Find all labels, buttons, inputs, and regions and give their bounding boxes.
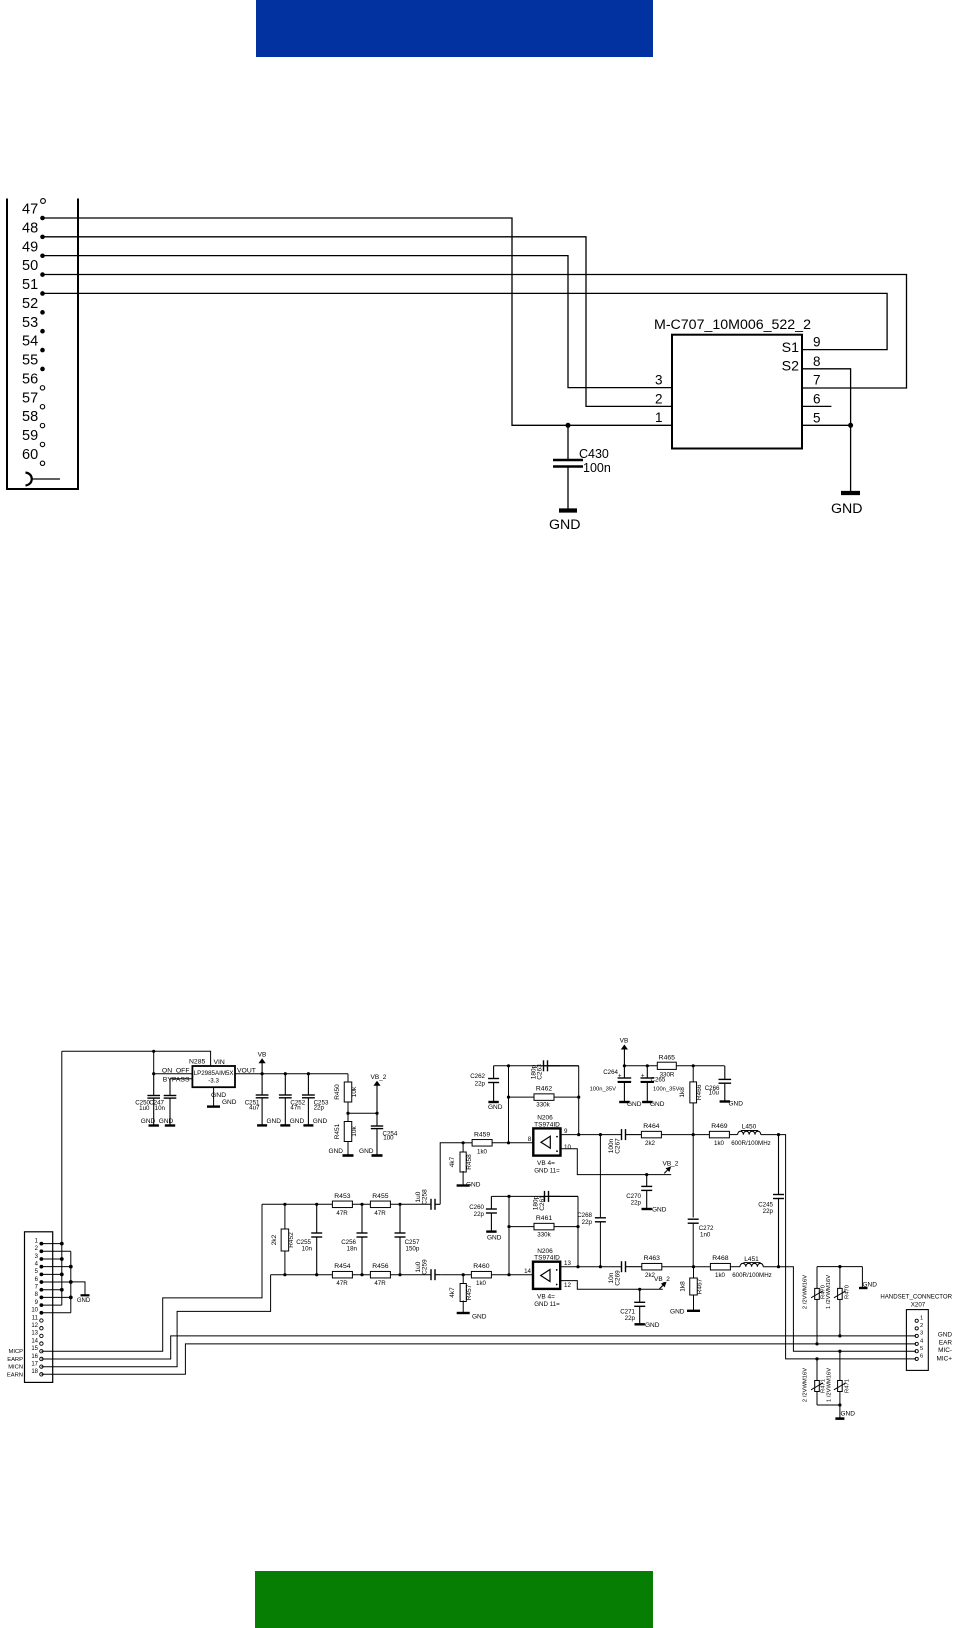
wire pin48 to U-pin2 bbox=[43, 237, 673, 407]
svg-text:3: 3 bbox=[655, 373, 663, 388]
svg-text:N285: N285 bbox=[189, 1059, 205, 1066]
junction rail2 C256 bbox=[360, 1273, 363, 1276]
ground (C270) bbox=[642, 1208, 652, 1210]
svg-text:R456: R456 bbox=[372, 1263, 388, 1270]
junction VB bbox=[261, 1072, 264, 1075]
svg-text:4u7: 4u7 bbox=[249, 1105, 260, 1112]
junction VB_2/C254 bbox=[375, 1112, 378, 1115]
svg-text:R454: R454 bbox=[334, 1263, 350, 1270]
svg-text:49: 49 bbox=[22, 239, 38, 255]
svg-text:6: 6 bbox=[35, 1277, 39, 1283]
capacitor C250 1u0 bbox=[153, 1074, 155, 1095]
svg-text:1k0: 1k0 bbox=[476, 1280, 487, 1287]
svg-text:GND: GND bbox=[652, 1207, 667, 1214]
resistor R453 47R bbox=[332, 1201, 352, 1208]
svg-text:2 /2VWM16V: 2 /2VWM16V bbox=[803, 1275, 809, 1309]
svg-text:EARP: EARP bbox=[7, 1357, 23, 1363]
wire pin51 to U-pin9 bbox=[43, 293, 888, 349]
handset pin 4 circle bbox=[915, 1342, 918, 1345]
junction R467 top bbox=[692, 1265, 695, 1268]
ground (C264) bbox=[619, 1101, 629, 1103]
junction C253 bbox=[307, 1072, 310, 1075]
junction C268 top bbox=[599, 1133, 602, 1136]
svg-text:60: 60 bbox=[22, 447, 38, 463]
svg-text:54: 54 bbox=[22, 334, 38, 350]
resistor R455 47R bbox=[370, 1201, 390, 1208]
svg-text:14: 14 bbox=[524, 1268, 531, 1275]
ground (C252) bbox=[280, 1124, 290, 1126]
svg-text:13: 13 bbox=[564, 1260, 571, 1267]
svg-text:2 /2VWM16V: 2 /2VWM16V bbox=[803, 1368, 809, 1402]
junction C265 bbox=[646, 1064, 649, 1067]
junction rail2 C255 bbox=[315, 1273, 318, 1276]
wire fb2 left vertical bbox=[508, 1196, 510, 1274]
svg-text:8: 8 bbox=[35, 1292, 39, 1298]
junction pin5/pin8 bbox=[848, 423, 853, 428]
svg-text:HANDSET_CONNECTOR: HANDSET_CONNECTOR bbox=[880, 1294, 952, 1301]
svg-text:GND: GND bbox=[831, 501, 863, 517]
svg-text:GND: GND bbox=[290, 1118, 305, 1125]
wire pin5 bbox=[802, 424, 851, 426]
regulator GND pin + ground bbox=[213, 1087, 215, 1106]
svg-text:VB_2: VB_2 bbox=[654, 1276, 670, 1283]
svg-text:R465: R465 bbox=[659, 1054, 675, 1061]
junction R461 right bbox=[576, 1225, 579, 1228]
pin 50 dot bbox=[40, 272, 45, 277]
svg-text:4k7: 4k7 bbox=[449, 1287, 456, 1298]
capacitor C245 22p bbox=[778, 1135, 780, 1194]
svg-text:47: 47 bbox=[22, 202, 38, 218]
wire pin12 feedback bbox=[560, 1281, 663, 1290]
svg-text:8: 8 bbox=[813, 354, 821, 369]
varistor R470 (1/2 VWM16V) bbox=[839, 1267, 841, 1336]
ground (right of IC) bbox=[841, 491, 860, 495]
power flag VB_2 (op1) bbox=[664, 1168, 669, 1173]
resistor R462 330k bbox=[534, 1094, 554, 1101]
svg-text:R453: R453 bbox=[334, 1193, 350, 1200]
svg-text:1: 1 bbox=[35, 1238, 39, 1244]
svg-text:R459: R459 bbox=[474, 1131, 490, 1138]
resistor R463 2k2 bbox=[642, 1263, 662, 1270]
pin 17 circle bbox=[40, 1365, 43, 1368]
pin 48 dot bbox=[40, 235, 45, 240]
svg-text:1k8: 1k8 bbox=[679, 1087, 686, 1098]
svg-text:R468: R468 bbox=[712, 1255, 728, 1262]
power flag VB_2 bbox=[376, 1085, 378, 1114]
svg-text:1 /2VWM16V: 1 /2VWM16V bbox=[827, 1368, 833, 1402]
ground (C250) bbox=[149, 1124, 159, 1126]
svg-text:GND: GND bbox=[141, 1118, 156, 1125]
wire VB rail bbox=[624, 1065, 724, 1067]
svg-text:52: 52 bbox=[22, 296, 38, 312]
wire after R463 bbox=[662, 1266, 711, 1268]
svg-text:C258: C258 bbox=[422, 1189, 429, 1205]
svg-text:59: 59 bbox=[22, 428, 38, 444]
svg-text:VB: VB bbox=[620, 1038, 629, 1045]
svg-text:2: 2 bbox=[920, 1323, 923, 1329]
svg-text:C430: C430 bbox=[579, 447, 609, 461]
wire op2 output bbox=[560, 1266, 621, 1268]
svg-text:VB_2: VB_2 bbox=[371, 1074, 387, 1081]
svg-text:R457: R457 bbox=[466, 1284, 473, 1300]
svg-text:VB 4=: VB 4= bbox=[537, 1160, 555, 1167]
pin 15 circle bbox=[40, 1350, 43, 1353]
svg-text:C263: C263 bbox=[536, 1064, 543, 1080]
handset pin 5 circle bbox=[915, 1350, 918, 1353]
wire bus1 (odd pins) bbox=[61, 1244, 63, 1306]
svg-text:50: 50 bbox=[22, 258, 38, 274]
junction rail1 C255 bbox=[315, 1203, 318, 1206]
svg-text:2: 2 bbox=[35, 1246, 39, 1252]
junction C270 bbox=[645, 1173, 648, 1176]
resistor R452 2k2 bbox=[284, 1204, 286, 1229]
ground (C266) bbox=[720, 1100, 730, 1102]
wire pin8 to GND net bbox=[802, 369, 851, 493]
svg-text:1u0: 1u0 bbox=[383, 1135, 394, 1142]
svg-text:47R: 47R bbox=[374, 1210, 386, 1217]
svg-text:R458: R458 bbox=[466, 1154, 473, 1170]
junction C264 bbox=[623, 1064, 626, 1067]
junction R470b/GND rail bbox=[838, 1334, 841, 1337]
svg-text:3: 3 bbox=[35, 1254, 39, 1260]
handset pin 2 circle bbox=[915, 1327, 918, 1330]
wire VIN rail bbox=[62, 1051, 211, 1066]
handset pin 6 circle bbox=[915, 1357, 918, 1360]
svg-text:58: 58 bbox=[22, 409, 38, 425]
svg-text:GND: GND bbox=[729, 1100, 744, 1107]
ground (R457) bbox=[457, 1312, 470, 1314]
svg-text:GND: GND bbox=[329, 1148, 344, 1155]
svg-text:S2: S2 bbox=[782, 359, 799, 375]
power flag VB bbox=[261, 1062, 263, 1074]
svg-text:7: 7 bbox=[813, 373, 821, 388]
resistor R459 1k0 bbox=[472, 1140, 492, 1147]
ground (R458) bbox=[457, 1184, 470, 1186]
resistor R465 330R bbox=[657, 1062, 676, 1069]
svg-text:55: 55 bbox=[22, 353, 38, 369]
resistor R468 1k0 bbox=[710, 1263, 730, 1270]
wire left drop to connector bbox=[61, 1051, 63, 1243]
op-amp N206 (b) TS974ID bbox=[533, 1262, 560, 1289]
pin 56 circle bbox=[40, 386, 44, 390]
ground (R451) bbox=[343, 1154, 354, 1157]
connector shield symbol bbox=[26, 473, 32, 486]
svg-text:R470: R470 bbox=[844, 1285, 850, 1299]
svg-text:-3.3: -3.3 bbox=[208, 1078, 219, 1085]
pin 16 circle bbox=[40, 1357, 43, 1360]
svg-text:48: 48 bbox=[22, 220, 38, 236]
svg-text:C269: C269 bbox=[615, 1270, 622, 1286]
pin 51 dot bbox=[40, 291, 45, 296]
pin 11 circle bbox=[40, 1319, 43, 1322]
svg-text:12: 12 bbox=[564, 1282, 571, 1289]
svg-text:GND: GND bbox=[267, 1118, 282, 1125]
svg-text:1k0: 1k0 bbox=[477, 1148, 488, 1155]
capacitor C267 100n bbox=[620, 1134, 622, 1136]
junction ON_OFF cap bbox=[152, 1072, 155, 1075]
banner top (blue) bbox=[256, 0, 653, 57]
svg-text:1: 1 bbox=[920, 1316, 923, 1322]
svg-text:1k0: 1k0 bbox=[715, 1272, 726, 1279]
svg-text:22p: 22p bbox=[474, 1211, 485, 1218]
svg-text:GND: GND bbox=[222, 1099, 237, 1106]
varistor R470 (2/2 VWM16V) bbox=[816, 1267, 818, 1344]
svg-text:GND: GND bbox=[159, 1118, 174, 1125]
capacitor C263 180p bbox=[543, 1065, 560, 1067]
wire BYPASS bbox=[170, 1078, 192, 1080]
capacitor C430 bbox=[567, 425, 569, 459]
resistor R467 1k8 bbox=[690, 1278, 698, 1295]
handset pin 3 circle bbox=[915, 1334, 918, 1337]
junction fb1 left bbox=[507, 1064, 510, 1067]
svg-text:R455: R455 bbox=[372, 1193, 388, 1200]
junction R457 bbox=[462, 1273, 465, 1276]
ground (C262) bbox=[488, 1101, 498, 1103]
svg-text:C262: C262 bbox=[470, 1073, 485, 1080]
svg-text:R461: R461 bbox=[536, 1215, 552, 1222]
svg-text:7: 7 bbox=[35, 1285, 39, 1291]
wire pin17 MICN to rail2 bbox=[41, 1275, 270, 1367]
junction pin9 node bbox=[577, 1133, 580, 1136]
resistor R451 10k bbox=[344, 1122, 352, 1142]
svg-text:47n: 47n bbox=[290, 1105, 301, 1112]
pin 60 circle bbox=[40, 461, 44, 465]
svg-text:1k0: 1k0 bbox=[714, 1140, 725, 1147]
svg-text:GND: GND bbox=[472, 1314, 487, 1321]
capacitor C255 10n bbox=[316, 1204, 318, 1232]
svg-text:2: 2 bbox=[655, 391, 663, 406]
capacitor C256 18n bbox=[361, 1204, 363, 1232]
svg-text:GND: GND bbox=[466, 1182, 481, 1189]
svg-text:TS974ID: TS974ID bbox=[534, 1255, 560, 1262]
wire fb2 right vertical bbox=[577, 1196, 579, 1266]
resistor R460 1k0 bbox=[471, 1271, 491, 1278]
ground (C251) bbox=[257, 1124, 267, 1126]
svg-text:MICP: MICP bbox=[9, 1349, 24, 1355]
svg-text:C260: C260 bbox=[469, 1204, 484, 1211]
svg-text:1n0: 1n0 bbox=[700, 1232, 711, 1239]
ground (C271) bbox=[635, 1323, 645, 1325]
resistor R461 330k bbox=[534, 1223, 554, 1230]
junction R470a/EAR rail bbox=[815, 1342, 818, 1345]
svg-text:VIN: VIN bbox=[214, 1059, 225, 1066]
capacitor C251 4u7 bbox=[261, 1074, 263, 1095]
svg-text:GND: GND bbox=[488, 1104, 503, 1111]
junction C252 bbox=[284, 1072, 287, 1075]
svg-text:C268: C268 bbox=[577, 1212, 592, 1219]
capacitor C262 22p bbox=[493, 1066, 495, 1078]
resistor R469 1k0 bbox=[709, 1131, 729, 1138]
wire varistor top rail bbox=[817, 1266, 862, 1268]
svg-text:330k: 330k bbox=[536, 1102, 550, 1109]
capacitor C260 22p bbox=[490, 1196, 492, 1208]
svg-text:EARN: EARN bbox=[7, 1372, 23, 1378]
varistor R471 (1/2 VWM16V) bbox=[839, 1351, 841, 1405]
wire feedback top rail ch2 bbox=[491, 1195, 578, 1197]
wire pin18 EARN rail bbox=[41, 1344, 916, 1374]
capacitor C258 1u0 bbox=[430, 1203, 433, 1205]
pin 5 dot bbox=[40, 1272, 44, 1276]
junction R466 top bbox=[692, 1064, 695, 1067]
resistor R454 47R bbox=[332, 1271, 352, 1278]
svg-text:1: 1 bbox=[655, 410, 663, 425]
junction R458 bbox=[462, 1141, 465, 1144]
svg-text:1 /2VWM16V: 1 /2VWM16V bbox=[826, 1275, 832, 1309]
wire bus2 (even pins) bbox=[70, 1251, 72, 1313]
wire pin49 to U-pin3 bbox=[43, 256, 673, 388]
svg-text:22p: 22p bbox=[314, 1105, 325, 1112]
svg-text:13: 13 bbox=[31, 1331, 38, 1337]
wire rail2 to R460 bbox=[440, 1274, 471, 1276]
svg-text:MIC-: MIC- bbox=[938, 1347, 952, 1354]
svg-text:53: 53 bbox=[22, 315, 38, 331]
inductor L451 bbox=[730, 1266, 740, 1268]
wire L450 out bbox=[761, 1135, 916, 1359]
pin 57 circle bbox=[40, 405, 44, 409]
pin 7 dot bbox=[40, 1288, 44, 1292]
svg-text:R460: R460 bbox=[473, 1263, 489, 1270]
varistor R471 (2/2 VWM16V) bbox=[816, 1359, 818, 1405]
svg-text:47R: 47R bbox=[336, 1280, 348, 1287]
regulator N285 LP2985AIM5X bbox=[192, 1066, 235, 1087]
svg-text:9: 9 bbox=[813, 335, 821, 350]
svg-text:+: + bbox=[618, 1074, 622, 1080]
wire fb1 left vertical bbox=[508, 1066, 510, 1143]
svg-text:GND 11=: GND 11= bbox=[534, 1168, 560, 1175]
ground (below C430) bbox=[559, 508, 577, 512]
ground (C260) bbox=[486, 1230, 496, 1232]
svg-text:EAR: EAR bbox=[939, 1340, 953, 1347]
svg-text:16: 16 bbox=[31, 1354, 38, 1360]
svg-text:51: 51 bbox=[22, 277, 38, 293]
svg-text:10: 10 bbox=[564, 1144, 571, 1151]
wire pin47 to U-pin1 bbox=[43, 218, 673, 425]
svg-text:+: + bbox=[641, 1074, 645, 1080]
junction rail1 R452 bbox=[283, 1203, 286, 1206]
wire op1 output bbox=[561, 1134, 622, 1136]
svg-text:C264: C264 bbox=[603, 1069, 618, 1076]
svg-text:L450: L450 bbox=[742, 1124, 757, 1131]
pin 1 dot bbox=[40, 1242, 44, 1246]
ground (connector) bbox=[71, 1282, 85, 1295]
junction rail2 R452 bbox=[283, 1273, 286, 1276]
svg-text:VB_2: VB_2 bbox=[663, 1160, 679, 1167]
svg-text:22p: 22p bbox=[763, 1208, 774, 1215]
junction pin8 node bbox=[507, 1141, 510, 1144]
wire feedback top rail ch1 bbox=[494, 1065, 579, 1067]
svg-text:15: 15 bbox=[31, 1346, 38, 1352]
svg-text:R467: R467 bbox=[697, 1278, 704, 1294]
svg-text:10u: 10u bbox=[709, 1090, 720, 1097]
svg-text:BYPASS: BYPASS bbox=[163, 1077, 190, 1084]
capacitor C265 100n_35V polarized bbox=[646, 1066, 648, 1078]
wire R461 row bbox=[509, 1226, 578, 1228]
svg-text:9: 9 bbox=[564, 1128, 568, 1135]
handset pin 1 circle bbox=[915, 1319, 918, 1322]
junction C245 bottom bbox=[777, 1265, 780, 1268]
svg-text:GND: GND bbox=[938, 1332, 953, 1339]
svg-text:GND: GND bbox=[359, 1148, 374, 1155]
svg-text:M-C707_10M006_522_2: M-C707_10M006_522_2 bbox=[654, 317, 811, 333]
wire rail1 to R459 bbox=[440, 1143, 463, 1205]
junction C268 bottom bbox=[599, 1265, 602, 1268]
pin 59 circle bbox=[40, 442, 44, 446]
ground (C254) bbox=[372, 1154, 383, 1157]
junction C430 node bbox=[566, 423, 571, 428]
svg-text:9: 9 bbox=[35, 1300, 39, 1306]
capacitor C261 180p bbox=[544, 1195, 560, 1197]
junction rail2 C257 bbox=[398, 1273, 401, 1276]
connector top pin open circle bbox=[41, 199, 46, 204]
junction rail1 C257 bbox=[398, 1203, 401, 1206]
svg-text:5: 5 bbox=[920, 1346, 923, 1352]
svg-text:GND: GND bbox=[841, 1410, 856, 1417]
pin 3 dot bbox=[40, 1257, 44, 1261]
svg-text:6: 6 bbox=[813, 391, 821, 406]
capacitor C269 10n bbox=[620, 1266, 622, 1268]
wire rail2 (ch2 input) bbox=[271, 1274, 431, 1276]
svg-text:2k2: 2k2 bbox=[271, 1234, 278, 1245]
pin 54 dot bbox=[40, 348, 45, 353]
resistor R450 10k bbox=[347, 1074, 349, 1082]
capacitor C257 150p bbox=[399, 1204, 401, 1232]
svg-text:10k: 10k bbox=[351, 1126, 358, 1137]
junction fb2 left bbox=[507, 1195, 510, 1198]
junction pin14 node bbox=[507, 1273, 510, 1276]
svg-text:5: 5 bbox=[813, 410, 821, 425]
junction rail1 C256 bbox=[360, 1203, 363, 1206]
svg-text:18: 18 bbox=[31, 1369, 38, 1375]
wire R462 row bbox=[509, 1096, 579, 1098]
pin6 stub bbox=[802, 405, 831, 407]
resistor R466 1k8 bbox=[692, 1066, 694, 1083]
op-amp N206 (a) TS974ID bbox=[533, 1128, 560, 1155]
wire after R464 bbox=[662, 1134, 709, 1136]
capacitor C247 10n bbox=[169, 1079, 171, 1095]
svg-text:22p: 22p bbox=[631, 1200, 642, 1207]
svg-text:R466: R466 bbox=[696, 1084, 703, 1100]
resistor R458 4k7 bbox=[462, 1143, 464, 1153]
svg-text:18n: 18n bbox=[347, 1246, 358, 1253]
junction C245 top bbox=[777, 1133, 780, 1136]
pin 8 dot bbox=[40, 1296, 44, 1300]
svg-text:GND: GND bbox=[549, 517, 581, 533]
svg-text:330k: 330k bbox=[537, 1232, 551, 1239]
svg-text:5: 5 bbox=[35, 1269, 39, 1275]
svg-text:LP2985AIM5X: LP2985AIM5X bbox=[194, 1070, 234, 1077]
svg-text:R464: R464 bbox=[643, 1123, 659, 1130]
capacitor C268 22p bbox=[599, 1135, 601, 1218]
pin 14 circle bbox=[40, 1342, 43, 1345]
wire pin16 EARP rail bbox=[41, 1336, 916, 1359]
capacitor C253 22p bbox=[307, 1074, 309, 1095]
pin 58 circle bbox=[40, 423, 44, 427]
svg-text:4: 4 bbox=[920, 1339, 924, 1345]
svg-text:R471: R471 bbox=[844, 1379, 850, 1393]
svg-text:R463: R463 bbox=[644, 1255, 660, 1262]
capacitor C266 10u bbox=[724, 1066, 726, 1079]
wire pin10 feedback bbox=[561, 1149, 672, 1175]
svg-text:11: 11 bbox=[32, 1315, 39, 1321]
svg-text:4: 4 bbox=[35, 1261, 39, 1267]
connector (top, pins 47-60) body bbox=[7, 199, 78, 490]
pin 6 dot bbox=[40, 1280, 44, 1284]
pin 47 dot bbox=[40, 216, 45, 221]
wire pin15 MICP to rail1 bbox=[41, 1204, 262, 1351]
svg-text:GND: GND bbox=[313, 1118, 328, 1125]
svg-text:100n: 100n bbox=[583, 461, 611, 475]
svg-text:C265: C265 bbox=[651, 1077, 666, 1084]
